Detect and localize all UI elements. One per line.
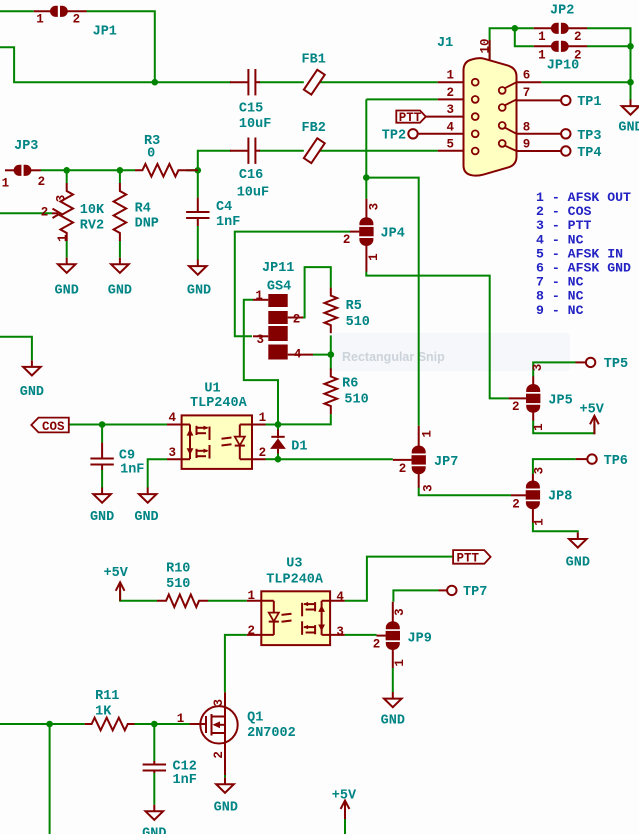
svg-text:JP11: JP11 bbox=[262, 261, 294, 276]
svg-text:2: 2 bbox=[212, 751, 226, 759]
svg-text:1nF: 1nF bbox=[216, 215, 240, 230]
svg-text:1: 1 bbox=[538, 49, 546, 63]
svg-text:+5V: +5V bbox=[580, 402, 605, 417]
svg-text:3: 3 bbox=[212, 699, 226, 707]
svg-text:TLP240A: TLP240A bbox=[266, 573, 324, 588]
svg-text:1K: 1K bbox=[95, 704, 112, 719]
svg-text:3: 3 bbox=[257, 333, 265, 347]
svg-text:1: 1 bbox=[532, 423, 546, 431]
svg-text:R4: R4 bbox=[135, 201, 151, 216]
svg-text:3: 3 bbox=[533, 467, 547, 475]
svg-text:TP5: TP5 bbox=[604, 357, 628, 372]
svg-text:GND: GND bbox=[381, 714, 405, 729]
svg-text:7: 7 bbox=[523, 86, 531, 100]
svg-text:3: 3 bbox=[336, 625, 344, 639]
svg-text:U3: U3 bbox=[286, 556, 302, 571]
svg-text:2: 2 bbox=[373, 638, 381, 652]
svg-text:TP7: TP7 bbox=[463, 585, 487, 600]
svg-text:PTT: PTT bbox=[399, 111, 422, 125]
svg-text:2: 2 bbox=[38, 175, 46, 189]
svg-text:RV2: RV2 bbox=[80, 219, 104, 234]
svg-text:1 - AFSK OUT: 1 - AFSK OUT bbox=[536, 190, 631, 205]
svg-text:3 - PTT: 3 - PTT bbox=[536, 218, 591, 233]
svg-text:TLP240A: TLP240A bbox=[190, 396, 248, 411]
svg-text:1: 1 bbox=[177, 712, 185, 726]
svg-text:COS: COS bbox=[42, 420, 65, 434]
svg-text:4 - NC: 4 - NC bbox=[536, 232, 584, 247]
svg-text:1: 1 bbox=[367, 253, 381, 261]
svg-text:0: 0 bbox=[147, 147, 155, 162]
svg-text:1nF: 1nF bbox=[173, 773, 197, 788]
svg-text:2: 2 bbox=[512, 400, 520, 414]
svg-text:2: 2 bbox=[343, 233, 351, 247]
svg-text:1: 1 bbox=[248, 589, 256, 603]
svg-text:510: 510 bbox=[166, 577, 190, 592]
svg-text:2: 2 bbox=[399, 462, 407, 476]
svg-text:R11: R11 bbox=[95, 689, 119, 704]
svg-text:GND: GND bbox=[187, 283, 211, 298]
svg-text:4: 4 bbox=[447, 120, 455, 134]
svg-text:J1: J1 bbox=[437, 36, 453, 51]
svg-text:JP2: JP2 bbox=[550, 4, 574, 19]
svg-text:2: 2 bbox=[447, 86, 455, 100]
svg-text:4: 4 bbox=[336, 590, 344, 604]
svg-text:2N7002: 2N7002 bbox=[247, 726, 296, 741]
svg-text:1: 1 bbox=[393, 659, 407, 667]
svg-text:2: 2 bbox=[259, 446, 267, 460]
svg-text:1nF: 1nF bbox=[120, 462, 144, 477]
svg-text:1: 1 bbox=[36, 13, 44, 27]
svg-text:7 - NC: 7 - NC bbox=[536, 275, 584, 290]
svg-text:C4: C4 bbox=[216, 200, 232, 215]
svg-text:1: 1 bbox=[421, 430, 435, 438]
svg-text:6 - AFSK GND: 6 - AFSK GND bbox=[536, 261, 631, 276]
svg-text:2 - COS: 2 - COS bbox=[536, 204, 591, 219]
svg-text:2: 2 bbox=[41, 206, 49, 220]
svg-text:GND: GND bbox=[618, 121, 639, 136]
svg-text:3: 3 bbox=[422, 484, 436, 492]
svg-text:3: 3 bbox=[368, 203, 382, 211]
svg-text:10K: 10K bbox=[80, 203, 105, 218]
svg-text:1: 1 bbox=[538, 30, 546, 44]
svg-text:2: 2 bbox=[293, 312, 301, 326]
svg-text:FB1: FB1 bbox=[302, 53, 326, 68]
svg-text:JP3: JP3 bbox=[14, 139, 38, 154]
svg-text:4: 4 bbox=[169, 411, 177, 425]
svg-text:3: 3 bbox=[393, 608, 407, 616]
svg-text:3: 3 bbox=[55, 195, 69, 203]
svg-text:3: 3 bbox=[531, 364, 545, 372]
svg-text:FB2: FB2 bbox=[302, 121, 326, 136]
svg-text:1: 1 bbox=[2, 176, 10, 190]
svg-text:GS4: GS4 bbox=[267, 280, 291, 295]
svg-text:10uF: 10uF bbox=[239, 117, 271, 132]
svg-text:PTT: PTT bbox=[457, 552, 480, 566]
svg-text:6: 6 bbox=[523, 69, 531, 83]
svg-text:10uF: 10uF bbox=[237, 186, 269, 201]
svg-text:C15: C15 bbox=[239, 102, 263, 117]
svg-text:5: 5 bbox=[447, 138, 455, 152]
svg-text:4: 4 bbox=[294, 347, 302, 361]
svg-text:TP6: TP6 bbox=[604, 454, 628, 469]
svg-text:5 - AFSK IN: 5 - AFSK IN bbox=[536, 246, 623, 261]
svg-text:C9: C9 bbox=[119, 449, 135, 464]
svg-text:C16: C16 bbox=[239, 168, 263, 183]
svg-text:1: 1 bbox=[255, 289, 263, 303]
svg-text:JP1: JP1 bbox=[93, 25, 117, 40]
svg-text:TP1: TP1 bbox=[577, 95, 601, 110]
svg-text:D1: D1 bbox=[291, 440, 307, 455]
svg-text:+5V: +5V bbox=[104, 566, 129, 581]
svg-text:3: 3 bbox=[169, 446, 177, 460]
svg-text:DNP: DNP bbox=[135, 216, 159, 231]
svg-text:GND: GND bbox=[566, 556, 590, 571]
svg-text:1: 1 bbox=[447, 69, 455, 83]
svg-text:TP3: TP3 bbox=[577, 129, 601, 144]
svg-text:1: 1 bbox=[259, 411, 267, 425]
svg-text:10: 10 bbox=[479, 38, 493, 53]
svg-text:GND: GND bbox=[108, 283, 132, 298]
svg-text:GND: GND bbox=[55, 283, 79, 298]
svg-text:JP5: JP5 bbox=[548, 393, 572, 408]
svg-text:JP7: JP7 bbox=[434, 455, 458, 470]
svg-text:+5V: +5V bbox=[332, 789, 357, 804]
svg-text:2: 2 bbox=[73, 13, 81, 27]
svg-text:510: 510 bbox=[344, 393, 368, 408]
svg-text:1: 1 bbox=[533, 518, 547, 526]
svg-text:R10: R10 bbox=[166, 561, 190, 576]
svg-text:8: 8 bbox=[523, 120, 531, 134]
svg-text:TP4: TP4 bbox=[577, 146, 601, 161]
svg-text:Q1: Q1 bbox=[247, 711, 263, 726]
svg-text:2: 2 bbox=[248, 624, 256, 638]
svg-text:3: 3 bbox=[447, 103, 455, 117]
svg-text:GND: GND bbox=[20, 385, 44, 400]
svg-text:GND: GND bbox=[142, 827, 166, 834]
svg-text:TP2: TP2 bbox=[382, 128, 406, 143]
svg-text:510: 510 bbox=[346, 315, 370, 330]
svg-text:8 - NC: 8 - NC bbox=[536, 289, 584, 304]
svg-text:U1: U1 bbox=[204, 381, 220, 396]
svg-text:2: 2 bbox=[574, 49, 582, 63]
svg-text:Rectangular Snip: Rectangular Snip bbox=[342, 350, 445, 364]
svg-text:GND: GND bbox=[134, 510, 158, 525]
svg-text:2: 2 bbox=[512, 497, 520, 511]
svg-text:JP9: JP9 bbox=[408, 631, 432, 646]
svg-text:GND: GND bbox=[214, 801, 238, 816]
svg-text:2: 2 bbox=[574, 30, 582, 44]
svg-text:9: 9 bbox=[523, 138, 531, 152]
svg-text:1: 1 bbox=[56, 234, 70, 242]
svg-text:R5: R5 bbox=[346, 299, 362, 314]
svg-text:R6: R6 bbox=[342, 377, 358, 392]
svg-text:GND: GND bbox=[90, 510, 114, 525]
svg-text:JP8: JP8 bbox=[548, 490, 572, 505]
svg-text:9 - NC: 9 - NC bbox=[536, 303, 584, 318]
svg-text:JP4: JP4 bbox=[381, 227, 405, 242]
